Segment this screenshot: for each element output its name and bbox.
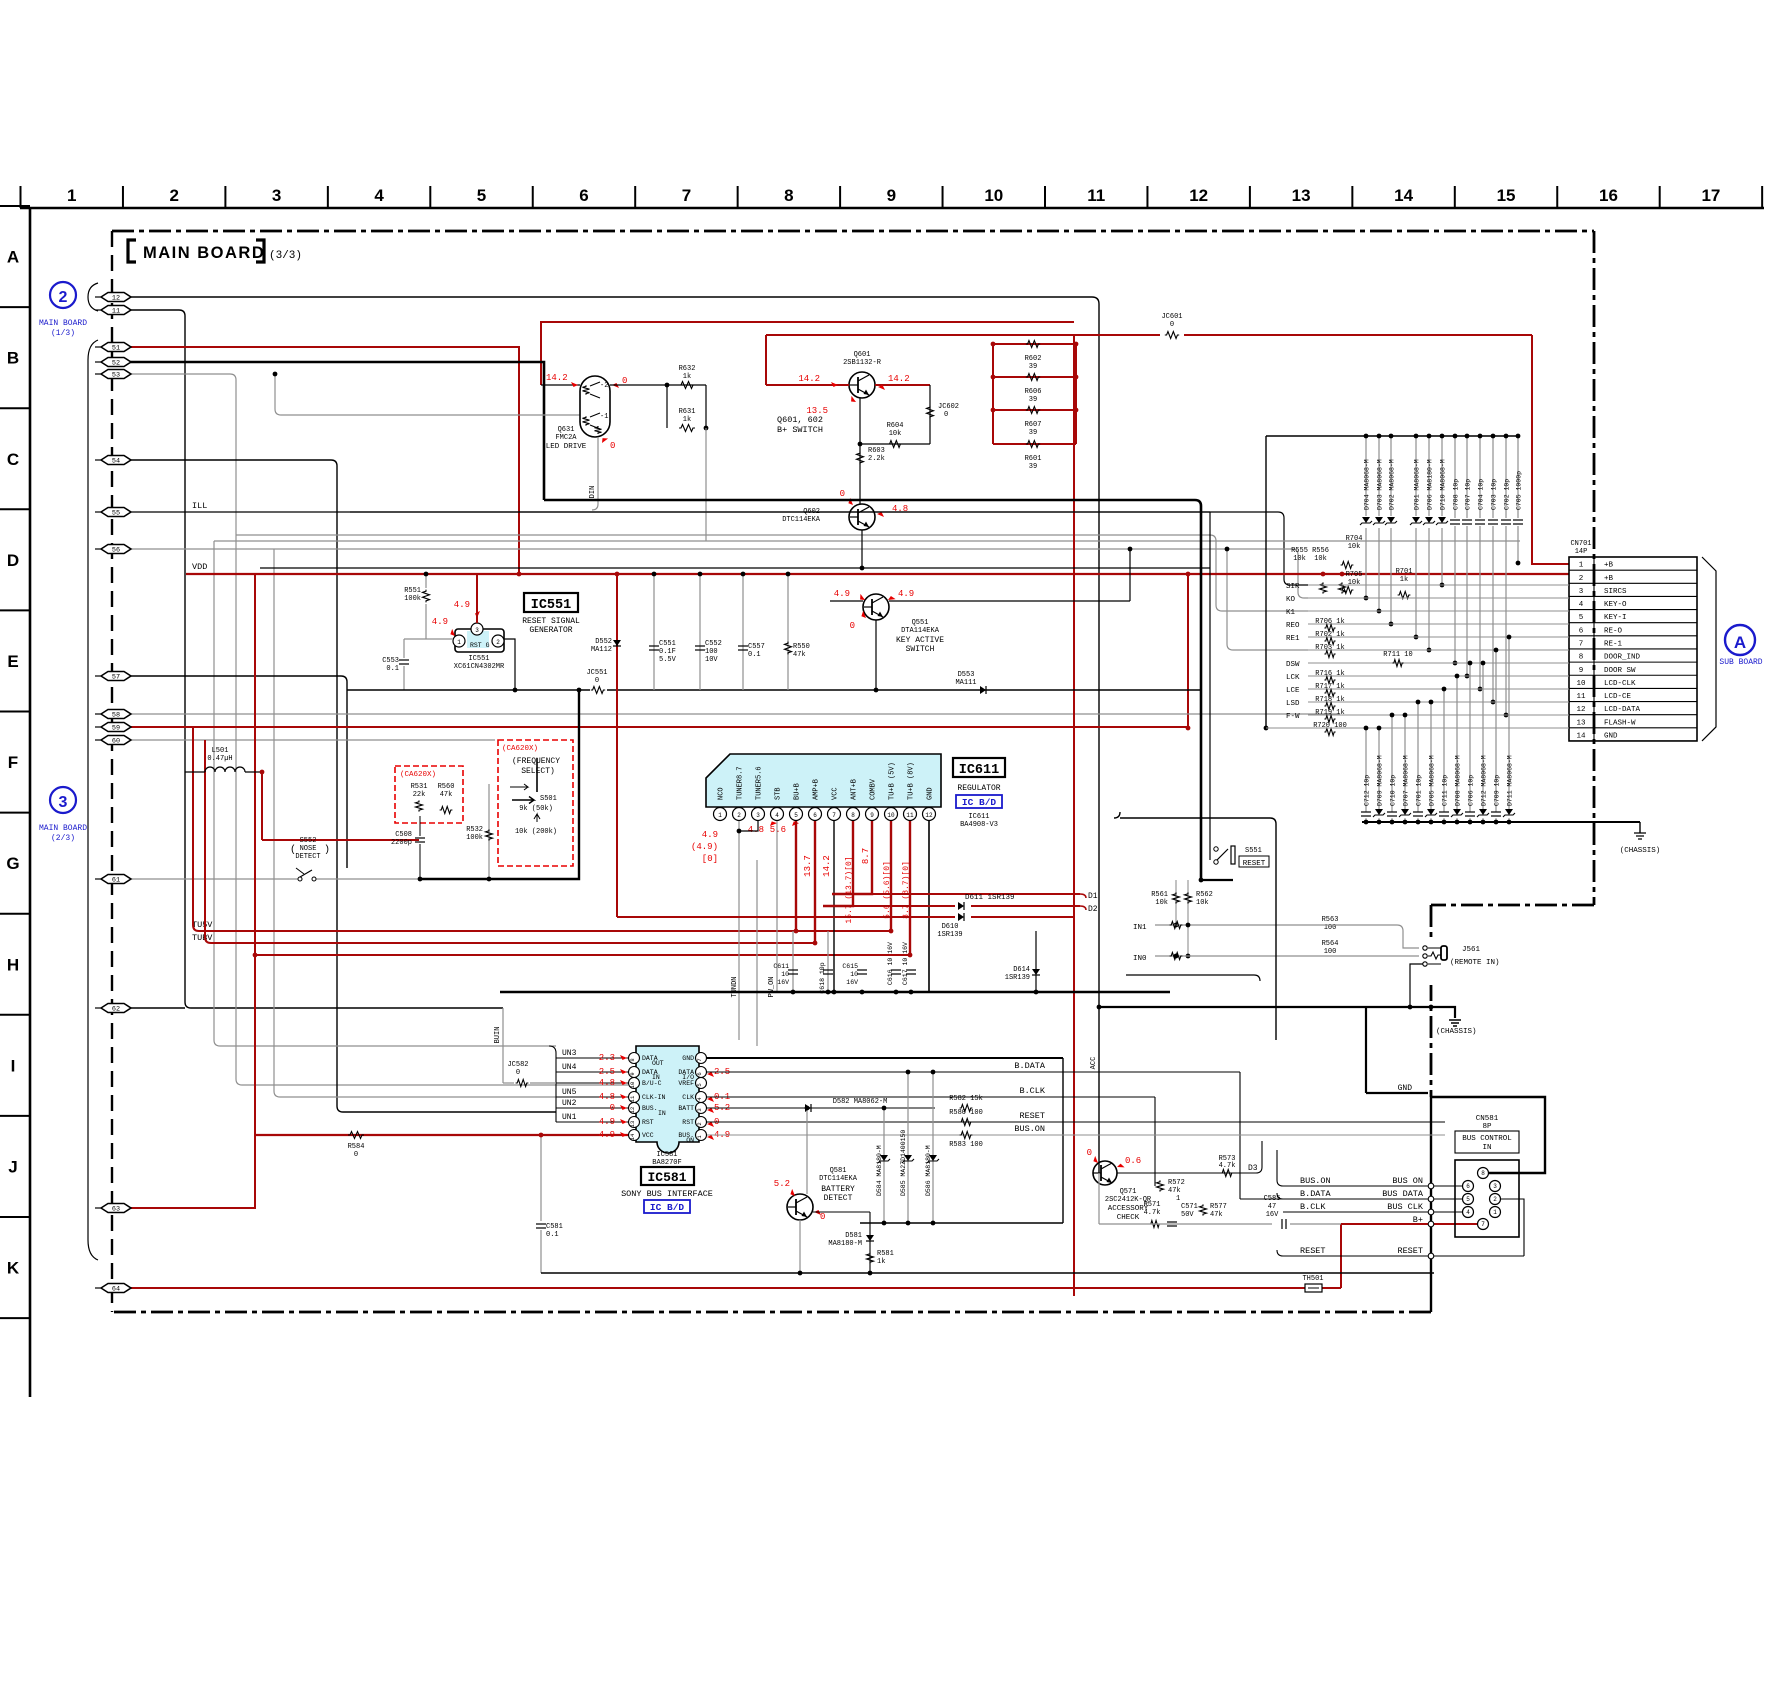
svg-text:R583 100: R583 100	[949, 1141, 983, 1149]
svg-text:SONY BUS INTERFACE: SONY BUS INTERFACE	[621, 1189, 713, 1199]
svg-text:BATTERY: BATTERY	[821, 1185, 855, 1194]
svg-text:RESET: RESET	[1243, 860, 1266, 868]
svg-text:R604: R604	[887, 422, 904, 430]
svg-text:14.2: 14.2	[798, 374, 820, 384]
svg-text:C710 10p: C710 10p	[1390, 775, 1397, 806]
svg-text:KEY-I: KEY-I	[1604, 614, 1627, 622]
svg-text:MAIN BOARD: MAIN BOARD	[39, 824, 87, 833]
svg-text:14.2: 14.2	[822, 855, 832, 877]
svg-text:FMC2A: FMC2A	[555, 434, 577, 442]
svg-text:G: G	[6, 854, 19, 873]
svg-text:0: 0	[354, 1151, 358, 1159]
svg-text:TUBV: TUBV	[192, 933, 213, 943]
svg-text:13: 13	[629, 1121, 636, 1128]
svg-text:I: I	[11, 1056, 16, 1075]
svg-text:COMBV: COMBV	[870, 778, 878, 800]
svg-text:KO: KO	[1286, 596, 1296, 604]
svg-text:9k (50k): 9k (50k)	[519, 805, 553, 813]
svg-text:R606: R606	[1025, 388, 1042, 396]
svg-text:C618 10p: C618 10p	[819, 962, 826, 993]
svg-text:LCK: LCK	[1286, 674, 1300, 682]
svg-text:RE-1: RE-1	[1604, 640, 1623, 648]
svg-text:D710 MA8068-M: D710 MA8068-M	[1440, 459, 1447, 510]
svg-text:7: 7	[832, 812, 836, 819]
svg-text:16V: 16V	[777, 979, 789, 986]
svg-text:D552: D552	[595, 638, 612, 646]
svg-text:D2: D2	[1088, 905, 1098, 914]
svg-text:3: 3	[59, 794, 68, 811]
svg-text:R562: R562	[1196, 891, 1213, 899]
svg-text:ILL: ILL	[192, 501, 207, 511]
svg-text:A: A	[1734, 633, 1746, 652]
svg-text:C581: C581	[546, 1223, 563, 1231]
svg-text:8: 8	[629, 1058, 636, 1061]
svg-text:0: 0	[610, 441, 615, 451]
svg-text:8: 8	[851, 812, 855, 819]
svg-text:0.1: 0.1	[748, 651, 761, 659]
svg-text:0: 0	[610, 1103, 615, 1113]
svg-text:3: 3	[272, 186, 281, 205]
svg-text:): )	[324, 844, 330, 856]
svg-text:UN3: UN3	[562, 1049, 577, 1058]
svg-text:4.9: 4.9	[432, 617, 448, 627]
svg-text:Q551: Q551	[912, 619, 929, 627]
svg-text:R701: R701	[1396, 568, 1413, 576]
svg-text:1: 1	[718, 812, 722, 819]
svg-text:8: 8	[784, 186, 793, 205]
svg-text:LCE: LCE	[1286, 687, 1300, 695]
svg-text:0: 0	[850, 621, 855, 631]
svg-text:DETECT: DETECT	[824, 1194, 853, 1203]
svg-text:13: 13	[1576, 719, 1586, 727]
svg-text:C552: C552	[705, 640, 722, 648]
svg-text:C707 10p: C707 10p	[1465, 479, 1472, 510]
svg-text:MA8180-M: MA8180-M	[828, 1240, 862, 1248]
svg-text:12: 12	[1576, 706, 1585, 714]
svg-text:1: 1	[1579, 562, 1584, 570]
svg-text:TU+B (5V): TU+B (5V)	[889, 762, 897, 800]
svg-text:(4.9): (4.9)	[691, 842, 718, 852]
svg-text:CLK-IN: CLK-IN	[642, 1094, 666, 1101]
svg-text:9: 9	[870, 812, 874, 819]
svg-text:D553: D553	[958, 671, 975, 679]
svg-text:VCC: VCC	[642, 1132, 654, 1139]
svg-text:6: 6	[813, 812, 817, 819]
svg-text:2SB1132-R: 2SB1132-R	[843, 359, 882, 367]
svg-text:IC581: IC581	[656, 1151, 677, 1159]
svg-text:2.2k: 2.2k	[868, 455, 885, 463]
svg-text:C701 10p: C701 10p	[1416, 775, 1423, 806]
svg-text:R711 10: R711 10	[1383, 651, 1412, 659]
svg-text:R551: R551	[404, 587, 421, 595]
svg-text:RESET: RESET	[1397, 1246, 1423, 1256]
svg-text:LCD-DATA: LCD-DATA	[1604, 706, 1641, 714]
svg-text:4.9: 4.9	[599, 1130, 615, 1140]
svg-text:BUS.ON: BUS.ON	[1300, 1176, 1331, 1186]
svg-text:R577: R577	[1210, 1203, 1227, 1211]
svg-text:10k 10k: 10k 10k	[1293, 555, 1327, 563]
svg-text:B/U-C: B/U-C	[642, 1080, 662, 1087]
svg-text:R560: R560	[438, 783, 455, 791]
svg-text:2: 2	[737, 812, 741, 819]
svg-text:IN0: IN0	[1133, 955, 1147, 963]
svg-text:1k: 1k	[1400, 576, 1408, 584]
svg-text:GENERATOR: GENERATOR	[529, 626, 572, 635]
svg-text:VREF: VREF	[678, 1080, 694, 1087]
svg-text:47: 47	[1268, 1203, 1276, 1211]
svg-text:BUS ON: BUS ON	[1392, 1176, 1423, 1186]
svg-text:D702 MA8068-M: D702 MA8068-M	[1389, 459, 1396, 510]
svg-text:0: 0	[944, 411, 948, 419]
svg-text:7: 7	[1579, 640, 1584, 648]
svg-text:5: 5	[794, 812, 798, 819]
svg-text:IN: IN	[652, 1074, 660, 1081]
svg-text:0: 0	[516, 1069, 520, 1077]
svg-text:KEY ACTIVE: KEY ACTIVE	[896, 636, 944, 645]
svg-text:1: 1	[1493, 1209, 1497, 1216]
svg-text:RE1: RE1	[1286, 635, 1300, 643]
svg-text:C557: C557	[748, 643, 765, 651]
svg-text:UN5: UN5	[562, 1088, 577, 1097]
svg-text:16: 16	[1599, 186, 1618, 205]
svg-text:10k: 10k	[1348, 579, 1361, 587]
svg-text:5.5V: 5.5V	[659, 656, 677, 664]
svg-text:1SR139: 1SR139	[937, 931, 962, 939]
svg-text:F: F	[8, 753, 18, 772]
svg-text:55: 55	[112, 509, 120, 517]
svg-text:39: 39	[1029, 463, 1037, 471]
svg-text:DTC114EKA: DTC114EKA	[819, 1175, 858, 1183]
svg-text:3: 3	[475, 627, 479, 634]
svg-text:0: 0	[595, 677, 599, 685]
svg-text:R581: R581	[877, 1250, 894, 1258]
svg-text:D706 MA8180-M: D706 MA8180-M	[1427, 459, 1434, 510]
svg-text:K: K	[7, 1259, 20, 1278]
svg-text:4: 4	[1466, 1209, 1470, 1216]
svg-text:50V: 50V	[1181, 1211, 1194, 1219]
svg-text:16V: 16V	[1266, 1211, 1279, 1219]
svg-text:Q571: Q571	[1120, 1188, 1137, 1196]
svg-text:E: E	[7, 652, 18, 671]
svg-text:39: 39	[1029, 429, 1037, 437]
svg-text:LED DRIVE: LED DRIVE	[546, 443, 587, 451]
svg-text:TUNDN: TUNDN	[731, 976, 739, 997]
svg-text:8.7: 8.7	[861, 848, 871, 864]
svg-text:IN: IN	[1482, 1144, 1491, 1152]
svg-text:DTC114EKA: DTC114EKA	[782, 516, 821, 524]
svg-text:10V: 10V	[705, 656, 718, 664]
svg-text:C611: C611	[773, 963, 789, 970]
svg-text:LCD-CE: LCD-CE	[1604, 693, 1632, 701]
svg-text:5: 5	[1579, 614, 1584, 622]
svg-text:47k: 47k	[793, 651, 806, 659]
svg-text:100k: 100k	[466, 834, 483, 842]
svg-text:6: 6	[1579, 627, 1584, 635]
svg-text:10k (200k): 10k (200k)	[515, 828, 557, 836]
svg-text:SWITCH: SWITCH	[906, 645, 935, 654]
svg-text:9: 9	[629, 1072, 636, 1075]
svg-text:F-W: F-W	[1286, 713, 1300, 721]
svg-text:D1: D1	[1088, 892, 1098, 901]
svg-text:61: 61	[112, 876, 120, 884]
svg-text:DSW: DSW	[1286, 661, 1300, 669]
svg-text:KEY-O: KEY-O	[1604, 601, 1627, 609]
svg-text:(1/3): (1/3)	[51, 329, 75, 338]
svg-text:C508: C508	[395, 831, 412, 839]
svg-text:TU5V: TU5V	[192, 920, 213, 930]
svg-text:7: 7	[1481, 1221, 1485, 1228]
svg-text:TU+B (8V): TU+B (8V)	[908, 762, 916, 800]
svg-text:UN2: UN2	[562, 1099, 577, 1108]
svg-text:[0]: [0]	[702, 854, 718, 864]
svg-text:GND: GND	[1604, 732, 1618, 740]
svg-text:D703 MA8068-M: D703 MA8068-M	[1377, 459, 1384, 510]
svg-text:B.CLK: B.CLK	[1019, 1086, 1045, 1096]
svg-text:PW_ON: PW_ON	[768, 976, 776, 997]
svg-text:R718 1k: R718 1k	[1315, 696, 1344, 704]
svg-text:BA4908-V3: BA4908-V3	[960, 821, 998, 829]
svg-text:D705 MA8068-M: D705 MA8068-M	[1429, 755, 1436, 806]
svg-text:IC551: IC551	[468, 655, 489, 663]
svg-text:4.9: 4.9	[702, 830, 718, 840]
svg-text:R632: R632	[679, 365, 696, 373]
svg-text:BATT: BATT	[678, 1105, 694, 1112]
svg-text:R531: R531	[411, 783, 428, 791]
svg-text:11: 11	[1576, 693, 1586, 701]
svg-text:58: 58	[112, 711, 120, 719]
svg-text:BUIN: BUIN	[494, 1027, 502, 1044]
svg-text:(2/3): (2/3)	[51, 834, 75, 843]
svg-text:0: 0	[840, 489, 845, 499]
svg-text:B.DATA: B.DATA	[1300, 1189, 1332, 1199]
svg-text:8: 8	[1579, 654, 1584, 662]
svg-text:11: 11	[629, 1095, 636, 1102]
svg-text:C705 1000p: C705 1000p	[1516, 471, 1523, 510]
svg-text:CLK: CLK	[682, 1094, 694, 1101]
svg-text:(CA620X): (CA620X)	[502, 745, 538, 753]
svg-text:BUS CLK: BUS CLK	[1387, 1202, 1424, 1212]
svg-text:R716 1k: R716 1k	[1315, 670, 1344, 678]
svg-text:D586 MA8180-M: D586 MA8180-M	[925, 1145, 932, 1196]
svg-text:GND: GND	[682, 1055, 694, 1062]
svg-text:7: 7	[682, 186, 691, 205]
svg-text:+B: +B	[1604, 562, 1614, 570]
svg-text:C615: C615	[842, 963, 858, 970]
svg-text:D704 MA8068-M: D704 MA8068-M	[1364, 459, 1371, 510]
svg-text:R631: R631	[679, 408, 696, 416]
svg-text:JC582: JC582	[507, 1061, 528, 1069]
svg-text:C712 10p: C712 10p	[1364, 775, 1371, 806]
svg-text:R601: R601	[1025, 455, 1042, 463]
svg-text:R584: R584	[348, 1143, 365, 1151]
svg-text:NCO: NCO	[718, 787, 726, 800]
svg-text:14.2: 14.2	[888, 374, 910, 384]
svg-text:1: 1	[1176, 1195, 1180, 1203]
svg-text:2: 2	[696, 1122, 703, 1125]
svg-text:5.2: 5.2	[774, 1179, 790, 1189]
svg-text:ACC: ACC	[1090, 1057, 1098, 1070]
svg-text:100: 100	[1324, 948, 1337, 956]
svg-text:DETECT: DETECT	[295, 853, 320, 861]
svg-text:10: 10	[1576, 680, 1586, 688]
svg-text:MA112: MA112	[591, 646, 612, 654]
svg-text:7: 7	[696, 1058, 703, 1061]
svg-text:R720 100: R720 100	[1313, 722, 1347, 730]
svg-text:4.7k: 4.7k	[1144, 1209, 1161, 1217]
svg-text:47k: 47k	[440, 791, 453, 799]
svg-text:100: 100	[705, 648, 718, 656]
svg-text:D584 MA8180-M: D584 MA8180-M	[876, 1145, 883, 1196]
svg-text:JC602: JC602	[938, 403, 959, 411]
svg-text:RST: RST	[642, 1119, 654, 1126]
svg-text:R607: R607	[1025, 421, 1042, 429]
svg-text:RE-O: RE-O	[1604, 627, 1623, 635]
svg-text:2: 2	[496, 639, 500, 646]
svg-text:C: C	[7, 450, 19, 469]
svg-text:IC581: IC581	[647, 1170, 686, 1185]
svg-text:LCD-CLK: LCD-CLK	[1604, 680, 1636, 688]
svg-text:0.47µH: 0.47µH	[207, 755, 232, 763]
svg-text:DOOR_IND: DOOR_IND	[1604, 654, 1641, 662]
svg-text:64: 64	[112, 1285, 120, 1293]
svg-text:9: 9	[1579, 667, 1584, 675]
svg-text:2200p: 2200p	[391, 839, 412, 847]
svg-text:4: 4	[1579, 601, 1584, 609]
svg-text:12: 12	[925, 812, 933, 819]
svg-text:D: D	[7, 551, 19, 570]
svg-text:1: 1	[457, 639, 461, 646]
svg-text:8: 8	[1481, 1170, 1485, 1177]
svg-text:4.8: 4.8	[599, 1078, 615, 1088]
svg-text:100k: 100k	[404, 595, 421, 603]
svg-text:0: 0	[1170, 321, 1174, 329]
svg-text:D611 1SR139: D611 1SR139	[965, 894, 1015, 902]
svg-text:S551: S551	[1245, 847, 1262, 855]
svg-text:CN701: CN701	[1570, 540, 1591, 548]
svg-text:R550: R550	[793, 643, 810, 651]
svg-text:D3: D3	[1248, 1164, 1258, 1173]
svg-text:RST G: RST G	[470, 642, 490, 649]
svg-text:XC61CN4302MR: XC61CN4302MR	[454, 663, 505, 671]
svg-text:C709 10p: C709 10p	[1494, 775, 1501, 806]
svg-text:UN1: UN1	[562, 1113, 577, 1122]
svg-text:14P: 14P	[1575, 548, 1588, 556]
svg-text:STB: STB	[775, 787, 783, 800]
svg-text:ACCESSORY: ACCESSORY	[1108, 1205, 1149, 1213]
svg-text:SELECT): SELECT)	[521, 767, 555, 776]
svg-text:BUS DATA: BUS DATA	[1382, 1189, 1424, 1199]
svg-text:D610: D610	[942, 923, 959, 931]
svg-text:BUS.ON: BUS.ON	[1014, 1124, 1045, 1134]
svg-text:62: 62	[112, 1005, 120, 1013]
svg-text:BUS CONTROL: BUS CONTROL	[1462, 1135, 1512, 1143]
svg-text:6: 6	[579, 186, 588, 205]
svg-text:10: 10	[850, 971, 858, 978]
svg-text:Q601: Q601	[854, 351, 871, 359]
svg-text:D709 MA8068-M: D709 MA8068-M	[1377, 755, 1384, 806]
svg-text:NOSE: NOSE	[300, 845, 317, 853]
svg-text:IC611: IC611	[959, 763, 1000, 778]
svg-text:6: 6	[1466, 1183, 1470, 1190]
svg-text:DTA114EKA: DTA114EKA	[901, 627, 940, 635]
svg-text:DOOR SW: DOOR SW	[1604, 667, 1636, 675]
svg-text:B+: B+	[1413, 1215, 1423, 1225]
svg-text:6: 6	[696, 1072, 703, 1075]
svg-text:Q631: Q631	[558, 426, 575, 434]
svg-text:CHECK: CHECK	[1117, 1214, 1140, 1222]
svg-text:B.DATA: B.DATA	[1014, 1061, 1046, 1071]
svg-text:5: 5	[1466, 1196, 1470, 1203]
svg-text:0.1: 0.1	[386, 665, 399, 673]
svg-text:2.3: 2.3	[599, 1053, 615, 1063]
svg-text:1SR139: 1SR139	[1005, 974, 1030, 982]
svg-text:B.CLK: B.CLK	[1300, 1202, 1326, 1212]
svg-text:13.7: 13.7	[803, 855, 813, 877]
svg-text:C616 10 16V: C616 10 16V	[887, 942, 894, 985]
svg-text:10k: 10k	[889, 430, 902, 438]
svg-text:10: 10	[984, 186, 1003, 205]
svg-text:R580 100: R580 100	[949, 1109, 983, 1117]
svg-text:R563: R563	[1322, 916, 1339, 924]
svg-text:0: 0	[820, 1212, 825, 1222]
svg-text:R704: R704	[1346, 535, 1363, 543]
svg-text:BUS.: BUS.	[642, 1105, 658, 1112]
svg-text:REO: REO	[1286, 622, 1300, 630]
svg-text:14: 14	[629, 1133, 636, 1140]
svg-text:R572: R572	[1168, 1179, 1185, 1187]
svg-text:IN1: IN1	[1133, 924, 1147, 932]
svg-text:D614: D614	[1013, 966, 1030, 974]
svg-text:(3/3): (3/3)	[269, 250, 302, 262]
svg-text:39: 39	[1029, 396, 1037, 404]
svg-text:8P: 8P	[1482, 1123, 1492, 1131]
svg-text:3: 3	[1579, 588, 1584, 596]
svg-text:63: 63	[112, 1205, 120, 1213]
svg-text:UN4: UN4	[562, 1063, 577, 1072]
svg-text:LSD: LSD	[1286, 700, 1300, 708]
svg-text:4: 4	[775, 812, 779, 819]
svg-text:+B: +B	[1604, 575, 1614, 583]
svg-text:D711 MA8068-M: D711 MA8068-M	[1507, 755, 1514, 806]
svg-text:MAIN BOARD: MAIN BOARD	[39, 319, 87, 328]
svg-text:A: A	[7, 248, 19, 267]
svg-text:(REMOTE IN): (REMOTE IN)	[1450, 959, 1500, 967]
svg-text:MA111: MA111	[955, 679, 976, 687]
svg-text:D708 MA8068-M: D708 MA8068-M	[1455, 755, 1462, 806]
svg-text:60: 60	[112, 737, 120, 745]
svg-text:C708 10p: C708 10p	[1453, 479, 1460, 510]
svg-text:51: 51	[112, 344, 120, 352]
svg-text:C553: C553	[382, 657, 399, 665]
svg-text:11: 11	[906, 812, 914, 819]
svg-text:57: 57	[112, 673, 120, 681]
svg-text:R705: R705	[1346, 571, 1363, 579]
svg-text:4.9: 4.9	[599, 1117, 615, 1127]
svg-text:14.2: 14.2	[546, 373, 568, 383]
svg-text:R706 1k: R706 1k	[1315, 618, 1344, 626]
svg-text:TH501: TH501	[1302, 1275, 1323, 1283]
svg-text:12: 12	[1189, 186, 1208, 205]
svg-text:B: B	[7, 349, 19, 368]
svg-text:11: 11	[112, 307, 120, 315]
svg-text:ANT+B: ANT+B	[851, 779, 859, 800]
svg-text:16V: 16V	[846, 979, 858, 986]
svg-text:1k: 1k	[683, 373, 691, 381]
svg-text:C704 10p: C704 10p	[1478, 479, 1485, 510]
svg-text:(: (	[290, 844, 296, 856]
svg-text:VDD: VDD	[192, 562, 207, 572]
svg-text:IC B/D: IC B/D	[962, 797, 997, 808]
